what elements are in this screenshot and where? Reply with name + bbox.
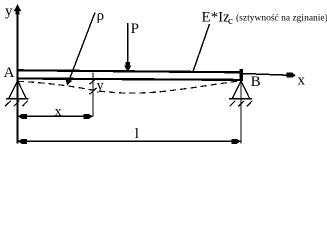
x dimension right arrowhead [84, 114, 93, 119]
x dimension line [18, 115, 93, 117]
deflection tick bottom [90, 88, 97, 94]
x dimension left arrowhead [18, 114, 27, 119]
force P arrowhead [124, 62, 131, 72]
l dimension right arrowhead [232, 139, 241, 144]
svg-text:x: x [55, 105, 62, 120]
beam right end cap [239, 69, 242, 81]
svg-text:P: P [131, 21, 139, 37]
y axis [17, 6, 19, 144]
l dimension line [18, 140, 240, 142]
deflection curve dashed [18, 81, 241, 93]
deflection tick top [90, 78, 97, 84]
svg-text:l: l [135, 126, 139, 142]
support A hatching [5, 101, 28, 107]
svg-text:ρ: ρ [97, 8, 105, 24]
svg-text:E*Iz: E*Iz [202, 9, 231, 25]
rho arrowhead [65, 78, 72, 85]
support B extension line [240, 81, 242, 144]
support B triangle [233, 81, 250, 98]
E*Izc leader line [193, 24, 209, 71]
rho leader line [69, 13, 95, 82]
svg-text:y: y [97, 79, 104, 94]
beam bottom edge [18, 77, 242, 81]
y axis arrowhead [14, 4, 21, 15]
svg-text:c: c [228, 15, 233, 27]
l dimension left arrowhead [18, 139, 27, 144]
deflection measure vertical line [92, 73, 94, 117]
svg-text:y: y [5, 4, 13, 20]
support B ground line [229, 98, 252, 100]
support A triangle [9, 81, 26, 98]
svg-text:A: A [4, 65, 15, 81]
x axis arrowhead [287, 73, 296, 78]
support B hatching [230, 101, 253, 107]
x axis [242, 74, 288, 76]
svg-text:x: x [298, 73, 306, 89]
svg-text:B: B [251, 74, 261, 90]
force P line [127, 23, 129, 66]
svg-text:(sztywność na zginanie): (sztywność na zginanie) [236, 13, 327, 24]
support A ground line [6, 98, 29, 100]
beam top edge [18, 69, 242, 73]
